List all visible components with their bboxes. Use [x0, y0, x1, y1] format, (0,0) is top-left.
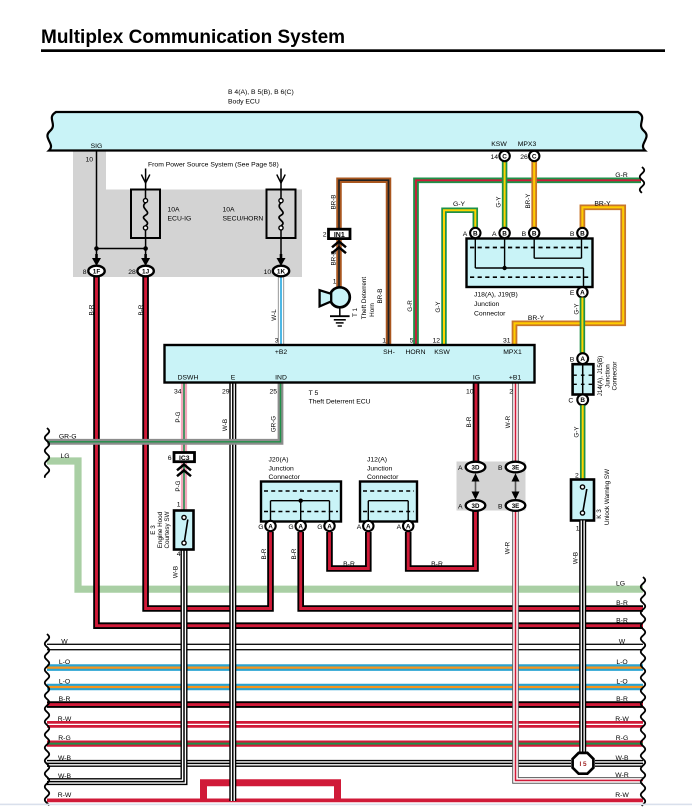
svg-text:P-G: P-G: [175, 480, 182, 491]
svg-text:3D: 3D: [472, 464, 480, 471]
svg-text:B-R: B-R: [616, 600, 628, 607]
svg-text:IND: IND: [275, 375, 287, 382]
wire BR-Y from MPX3 C26 to J18: [531, 161, 537, 228]
wire W-B from ECU E pin29 down: [229, 383, 236, 802]
svg-text:B: B: [580, 397, 585, 404]
wire B-R from ECU IG pin10 down to 3D: [473, 383, 480, 462]
svg-text:A: A: [298, 523, 303, 530]
svg-text:3: 3: [275, 338, 279, 345]
wire B-R from connector 1J down, right to J20 pin A: [146, 277, 271, 609]
svg-text:Horn: Horn: [369, 303, 376, 317]
wire R-G bottom row: [47, 740, 643, 746]
svg-text:L-O: L-O: [59, 679, 70, 686]
svg-text:Body ECU: Body ECU: [228, 99, 260, 106]
svg-text:12: 12: [432, 338, 440, 345]
J18 pin E A: [577, 287, 587, 297]
connector IN1: [329, 229, 351, 238]
svg-text:L-O: L-O: [616, 679, 627, 686]
svg-text:B: B: [532, 230, 537, 237]
wire W-R from 3E bottom to right edge: [516, 511, 644, 780]
wire W-B below E3 switch to left edge: [47, 550, 184, 782]
svg-text:J18(A), J19(B): J18(A), J19(B): [474, 292, 518, 299]
svg-text:14: 14: [490, 154, 498, 161]
svg-text:J14(A), J15(B): J14(A), J15(B): [597, 356, 604, 397]
wire P-G from ECU DSWH down through IC3 to E3: [181, 383, 187, 511]
svg-text:C: C: [502, 153, 507, 160]
svg-text:B-R: B-R: [343, 561, 355, 568]
junction connector J14(A),J15(B): [573, 364, 594, 394]
svg-text:1K: 1K: [277, 268, 286, 275]
svg-text:1: 1: [576, 526, 580, 533]
connector 1K: [280, 254, 283, 259]
svg-text:W: W: [61, 639, 68, 646]
svg-text:KSW: KSW: [434, 349, 450, 356]
svg-text:Multiplex Communication System: Multiplex Communication System: [41, 27, 345, 48]
svg-text:P-G: P-G: [175, 411, 182, 422]
svg-text:Engine Hood: Engine Hood: [157, 511, 164, 548]
wire G-Y J14 to K3: [580, 405, 586, 479]
pin C 26 MPX3: [529, 151, 539, 161]
wire LG left entry, down and across bottom: [47, 461, 643, 589]
K3 Unlock Warning SW: [571, 480, 594, 521]
wire W bottom row: [47, 644, 643, 651]
connector I5 octagon: [573, 753, 594, 774]
svg-text:A: A: [406, 523, 411, 530]
svg-text:BR-B: BR-B: [330, 250, 337, 265]
svg-text:GR-G: GR-G: [59, 433, 77, 440]
wire BR-B horn to IN1: [336, 239, 342, 288]
svg-text:10A: 10A: [223, 207, 236, 214]
svg-text:B: B: [502, 230, 507, 237]
junction connector J18(A),J19(B): [467, 239, 593, 288]
junction connector J12(A): [360, 482, 417, 522]
svg-text:B: B: [570, 356, 575, 363]
svg-text:1J: 1J: [142, 268, 150, 275]
svg-text:T 1: T 1: [352, 308, 359, 317]
wire B-R J20 pin 2 to right edge: [301, 532, 643, 609]
svg-text:3D: 3D: [472, 503, 480, 510]
svg-text:G-Y: G-Y: [573, 303, 580, 315]
svg-text:B-R: B-R: [261, 548, 268, 559]
T5 Theft Deterrent ECU box: [165, 345, 535, 383]
wire BR-Y J18 pin4 loop to ECU MPX1: [515, 207, 624, 345]
svg-text:B: B: [570, 231, 575, 238]
svg-text:HORN: HORN: [405, 349, 425, 356]
connector 1F: [95, 254, 98, 259]
svg-text:K 3: K 3: [596, 509, 603, 519]
svg-text:KSW: KSW: [491, 141, 507, 148]
svg-text:B: B: [498, 503, 503, 510]
svg-text:GR-G: GR-G: [271, 416, 278, 433]
wire B-R from connector 1F down to bottom row: [97, 277, 644, 626]
gray shade fuse area: [73, 151, 302, 277]
svg-text:W-B: W-B: [615, 755, 629, 762]
svg-text:G-R: G-R: [615, 172, 628, 179]
wire W-R from ECU +B1 pin2 down to 3E: [512, 383, 519, 462]
svg-text:IN1: IN1: [334, 232, 345, 239]
svg-text:BR-B: BR-B: [330, 194, 337, 209]
gray shade 3D/3E area: [457, 462, 526, 511]
svg-text:A: A: [268, 523, 273, 530]
svg-text:R-W: R-W: [58, 716, 72, 723]
wire B-R J20 pin3 to J12 pin1 U-loop: [330, 532, 369, 569]
wire G-R from right edge to ECU HORN: [416, 180, 641, 345]
svg-text:R-W: R-W: [615, 716, 629, 723]
svg-text:SIG: SIG: [91, 143, 103, 150]
Body ECU bus bar B4(A),B5(B),B6(C): [47, 112, 646, 151]
svg-text:G-Y: G-Y: [435, 301, 442, 313]
page border bottom: [0, 804, 692, 806]
svg-text:34: 34: [174, 389, 182, 396]
svg-text:W-R: W-R: [504, 541, 511, 554]
svg-text:A: A: [327, 523, 332, 530]
svg-text:26: 26: [520, 154, 528, 161]
wire W-L from 1K to ECU +B2: [278, 277, 284, 346]
svg-text:A: A: [463, 231, 468, 238]
svg-text:A: A: [366, 523, 371, 530]
wire W-B row through I5: [47, 760, 571, 767]
svg-text:E: E: [231, 375, 236, 382]
svg-text:IG: IG: [473, 375, 480, 382]
wire B-R bottom row: [47, 701, 643, 708]
svg-text:Junction: Junction: [269, 466, 295, 473]
svg-text:2: 2: [323, 232, 327, 239]
svg-text:B-R: B-R: [616, 617, 628, 624]
connector 1J: [144, 254, 147, 259]
svg-text:B-R: B-R: [616, 696, 628, 703]
svg-text:C: C: [568, 398, 573, 405]
svg-text:L-O: L-O: [59, 659, 70, 666]
svg-text:Connector: Connector: [611, 361, 618, 390]
svg-text:MPX1: MPX1: [503, 349, 522, 356]
svg-text:G: G: [258, 524, 263, 531]
svg-text:29: 29: [222, 389, 230, 396]
svg-text:G-Y: G-Y: [495, 196, 502, 208]
svg-text:T 5: T 5: [309, 390, 319, 397]
svg-text:A: A: [580, 290, 585, 297]
wire L-O bottom row: [47, 664, 643, 671]
svg-text:B-R: B-R: [291, 548, 298, 559]
svg-text:1: 1: [177, 502, 181, 509]
svg-text:6: 6: [168, 455, 172, 462]
svg-text:W-B: W-B: [58, 755, 72, 762]
svg-text:W-B: W-B: [58, 773, 72, 780]
wire R-W thick loop bottom center: [204, 783, 338, 800]
wire SIG from bus bar: [96, 151, 98, 249]
svg-text:ECU-IG: ECU-IG: [168, 216, 192, 223]
pin C 14 KSW: [499, 151, 509, 161]
svg-text:B 4(A), B 5(B), B 6(C): B 4(A), B 5(B), B 6(C): [228, 89, 294, 96]
junction connector J20(A): [261, 482, 341, 522]
wire R-W thin bottom row: [47, 799, 643, 803]
svg-text:IC3: IC3: [179, 455, 190, 462]
svg-text:G-R: G-R: [407, 300, 414, 312]
svg-text:J12(A): J12(A): [367, 457, 387, 464]
J18 top pins: [470, 228, 480, 238]
svg-text:B-R: B-R: [431, 561, 443, 568]
svg-text:SH-: SH-: [383, 349, 395, 356]
wire BR-B IN1 up over to ECU SH-: [339, 180, 389, 345]
svg-text:Unlock Warning SW: Unlock Warning SW: [604, 469, 611, 525]
svg-text:A: A: [492, 231, 497, 238]
svg-text:R-G: R-G: [58, 735, 70, 742]
svg-text:W-R: W-R: [505, 415, 512, 428]
svg-text:Connector: Connector: [269, 474, 301, 481]
svg-text:+B1: +B1: [509, 375, 522, 382]
wire R-W bottom row: [47, 721, 643, 728]
svg-text:25: 25: [269, 389, 277, 396]
svg-text:L-O: L-O: [616, 659, 627, 666]
svg-text:1F: 1F: [93, 268, 101, 275]
svg-text:Courtesy SW: Courtesy SW: [164, 511, 171, 548]
svg-text:W-B: W-B: [172, 566, 179, 578]
svg-text:W-L: W-L: [271, 309, 278, 321]
svg-text:31: 31: [503, 338, 511, 345]
svg-text:1: 1: [333, 279, 337, 286]
svg-text:R-W: R-W: [58, 792, 72, 799]
wire B-R J12 pin2 to 3D U-loop: [408, 511, 475, 569]
svg-text:G: G: [317, 524, 322, 531]
svg-text:LG: LG: [60, 453, 69, 460]
svg-text:B-R: B-R: [466, 416, 473, 427]
svg-text:BR-Y: BR-Y: [594, 200, 611, 207]
svg-text:+B2: +B2: [275, 349, 288, 356]
svg-text:B: B: [522, 231, 527, 238]
svg-text:2: 2: [575, 473, 579, 480]
svg-text:W: W: [619, 639, 626, 646]
svg-text:10: 10: [466, 389, 474, 396]
svg-text:W-R: W-R: [615, 772, 629, 779]
fuse SECU/HORN 10A: [280, 190, 282, 239]
fuse ECU-IG 10A: [145, 190, 147, 239]
svg-text:DSWH: DSWH: [178, 375, 199, 382]
svg-text:Connector: Connector: [474, 311, 506, 318]
svg-text:B: B: [580, 230, 585, 237]
svg-text:MPX3: MPX3: [518, 141, 537, 148]
svg-text:E: E: [570, 290, 575, 297]
svg-text:B: B: [473, 230, 478, 237]
svg-text:Junction: Junction: [367, 466, 393, 473]
svg-text:BR-Y: BR-Y: [525, 193, 532, 209]
svg-text:B-R: B-R: [88, 304, 95, 315]
svg-text:G-Y: G-Y: [573, 426, 580, 438]
svg-text:10: 10: [85, 157, 93, 164]
svg-text:C: C: [532, 153, 537, 160]
svg-text:W-B: W-B: [222, 419, 229, 431]
svg-text:SECU/HORN: SECU/HORN: [223, 216, 264, 223]
svg-text:From Power Source System (See: From Power Source System (See Page 58): [148, 162, 279, 169]
svg-text:28: 28: [128, 269, 136, 276]
wire G-Y from J18 E to J14: [580, 298, 586, 354]
svg-text:A: A: [458, 503, 463, 510]
svg-text:1: 1: [382, 338, 386, 345]
svg-text:3E: 3E: [512, 503, 520, 510]
svg-text:LG: LG: [616, 580, 625, 587]
svg-text:8: 8: [83, 269, 87, 276]
svg-text:A: A: [580, 356, 585, 363]
svg-text:A: A: [458, 465, 463, 472]
svg-text:B-R: B-R: [138, 304, 145, 315]
svg-text:10: 10: [264, 269, 272, 276]
svg-text:A: A: [397, 524, 402, 531]
wire L-O bottom row: [47, 684, 643, 691]
connector pair 3E: [506, 462, 526, 473]
svg-text:G-Y: G-Y: [453, 201, 466, 208]
svg-text:R-G: R-G: [616, 735, 628, 742]
wire G-Y J18 pinA loop to ECU KSW: [444, 210, 475, 345]
E3 Engine Hood Courtesy SW: [174, 511, 194, 550]
svg-text:Junction: Junction: [604, 364, 611, 388]
connector IC3: [174, 453, 195, 462]
svg-text:3E: 3E: [512, 464, 520, 471]
from power source arrows: [141, 175, 149, 184]
wire G-Y from KSW C14 to J18: [502, 161, 508, 228]
svg-text:Junction: Junction: [474, 301, 500, 308]
horn T1: [330, 287, 350, 307]
svg-text:10A: 10A: [168, 207, 181, 214]
ground: [339, 307, 341, 316]
connector pair 3D: [466, 462, 486, 473]
svg-text:Connector: Connector: [367, 474, 399, 481]
svg-text:B-R: B-R: [59, 696, 71, 703]
svg-text:B: B: [498, 465, 503, 472]
wavy edge marks: [45, 428, 49, 478]
svg-text:A: A: [357, 524, 362, 531]
wire W-B K3 to I5: [579, 521, 586, 754]
svg-text:I 5: I 5: [579, 761, 587, 768]
wire GR-G from ECU IND pin25 down to left edge: [47, 383, 281, 442]
junction dots: [94, 246, 99, 251]
svg-text:2: 2: [509, 389, 513, 396]
svg-text:BR-Y: BR-Y: [528, 315, 545, 322]
svg-text:E 3: E 3: [150, 525, 157, 535]
svg-text:BR-B: BR-B: [377, 288, 384, 303]
svg-text:R-W: R-W: [615, 792, 629, 799]
svg-text:J20(A): J20(A): [269, 457, 289, 464]
svg-text:Theft Deterrent ECU: Theft Deterrent ECU: [309, 399, 371, 406]
svg-text:G: G: [288, 524, 293, 531]
svg-text:W-B: W-B: [572, 552, 579, 564]
svg-text:5: 5: [410, 338, 414, 345]
svg-text:4: 4: [177, 551, 181, 558]
svg-text:Theft Deterrent: Theft Deterrent: [361, 277, 368, 320]
